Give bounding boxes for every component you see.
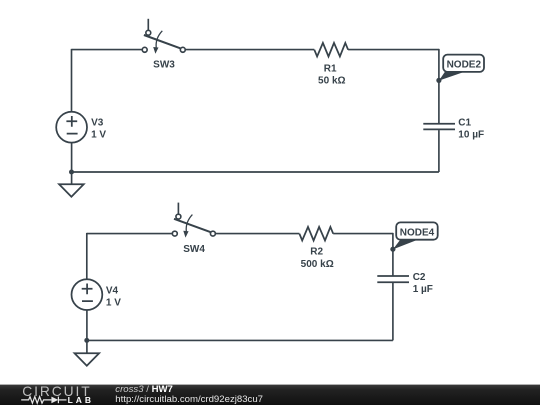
voltage source V3: [56, 112, 87, 143]
node junction dot (circuit 2 ground node): [84, 338, 89, 343]
node NODE2 flag: [436, 55, 484, 83]
wire bottom horizontal (circuit 1): [72, 171, 439, 173]
svg-text:R2: R2: [310, 247, 323, 258]
CircuitLab logo schematic line with resistor and diode: [21, 397, 66, 404]
svg-text:R1: R1: [324, 63, 337, 74]
ground symbol (circuit 2): [75, 340, 100, 365]
wire bottom horizontal (circuit 2): [87, 339, 393, 341]
resistor R1: [314, 43, 348, 57]
label V4 value: [106, 285, 121, 308]
ground symbol (circuit 1): [59, 172, 84, 197]
footer background bar: [0, 385, 540, 405]
wire left vertical (corner down to V3 top): [71, 49, 73, 112]
wire C1 bottom to bottom-right corner: [438, 130, 440, 172]
capacitor C2: [377, 276, 409, 282]
wire V4 bottom to ground junction: [86, 310, 88, 340]
wire SW3 right terminal to R1: [186, 49, 315, 51]
svg-text:SW3: SW3: [153, 60, 175, 71]
SW3 blade: [144, 35, 180, 48]
label R1 value: [318, 63, 345, 86]
svg-text:C2: C2: [413, 272, 426, 283]
wire C2 bottom to bottom-right corner: [392, 283, 394, 341]
node junction dot (circuit 1 ground node): [69, 170, 74, 175]
SW3 throw terminal stub wire: [147, 19, 149, 31]
wire top-left segment (corner to SW3 left terminal): [72, 49, 143, 51]
SW3 actuation arrow: [156, 31, 162, 48]
svg-text:10 µF: 10 µF: [458, 130, 484, 141]
wire left vertical (corner down to V4 top): [86, 233, 88, 279]
svg-text:NODE2: NODE2: [447, 60, 482, 71]
SW4 actuation arrow: [186, 215, 192, 232]
label R2 value: [301, 247, 334, 270]
label C1 value: [458, 118, 484, 141]
switch SW3: [142, 19, 185, 54]
svg-text:SW4: SW4: [183, 244, 205, 255]
SW4 terminal pins: [176, 214, 181, 219]
wire SW4 right terminal to R2: [216, 233, 300, 235]
voltage source V4: [72, 279, 103, 310]
node NODE4 flag: [390, 222, 437, 251]
SW4 throw terminal stub wire: [177, 203, 179, 215]
svg-text:1 V: 1 V: [106, 298, 121, 309]
svg-text:500 kΩ: 500 kΩ: [301, 259, 334, 270]
svg-text:1 V: 1 V: [91, 130, 106, 141]
svg-text:50 kΩ: 50 kΩ: [318, 75, 345, 86]
wire top-left segment (corner to SW4 left terminal): [87, 233, 172, 235]
svg-text:V3: V3: [91, 117, 104, 128]
wire V3 bottom to ground junction: [71, 143, 73, 172]
label C2 value: [413, 272, 433, 295]
capacitor C1: [423, 124, 455, 130]
switch SW4: [172, 203, 215, 238]
svg-text:V4: V4: [106, 285, 119, 296]
wire right vertical down to C1: [438, 49, 440, 123]
wire right vertical down to C2: [392, 233, 394, 276]
SW4 blade: [174, 219, 210, 232]
svg-text:LAB: LAB: [68, 395, 94, 405]
wire R2 to top-right corner: [333, 233, 393, 235]
resistor R2: [299, 227, 333, 241]
wire R1 to top-right corner: [348, 49, 439, 51]
svg-text:http://circuitlab.com/crd92ezj: http://circuitlab.com/crd92ezj83cu7: [115, 394, 263, 405]
svg-text:C1: C1: [458, 118, 471, 129]
label V3 value: [91, 117, 106, 140]
svg-text:NODE4: NODE4: [400, 228, 435, 239]
SW3 terminal pins: [146, 30, 151, 35]
svg-text:1 µF: 1 µF: [413, 284, 433, 295]
